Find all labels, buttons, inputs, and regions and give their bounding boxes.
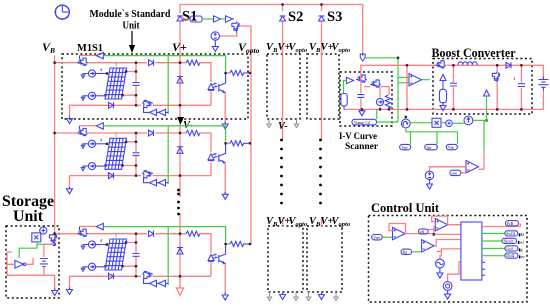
wire vsrc ground bbox=[214, 40, 216, 45]
mosfet S1 bbox=[232, 22, 239, 33]
svg-text:▮sw: ▮sw bbox=[519, 255, 526, 259]
gray ground under box2 left bbox=[267, 119, 271, 128]
svg-text:s-s: s-s bbox=[192, 17, 197, 22]
svg-text:Kp: Kp bbox=[403, 251, 408, 255]
capsule out1 bbox=[506, 221, 519, 226]
ellipsis column S2 bbox=[280, 139, 283, 205]
wire out row4 green bbox=[482, 248, 505, 250]
svg-text:Boost Converter: Boost Converter bbox=[432, 46, 516, 60]
svg-text:SwCtl: SwCtl bbox=[506, 232, 515, 236]
wire ctl3 out bbox=[434, 240, 461, 246]
wire ctl1 long out bbox=[428, 227, 461, 235]
capsule out4 bbox=[505, 246, 518, 251]
module unit box S2 bbox=[267, 54, 300, 119]
wire red divider bbox=[406, 65, 408, 109]
wire out row5 green bbox=[482, 255, 505, 257]
mosfet scanner1 bbox=[356, 75, 367, 82]
input capsule Vref bbox=[372, 235, 383, 240]
svg-text:Control Unit: Control Unit bbox=[371, 201, 440, 215]
S1 pulse block bbox=[190, 16, 202, 22]
capsule out3 bbox=[502, 238, 517, 243]
junction green bbox=[397, 57, 399, 59]
gate arrow boost1 bbox=[440, 75, 446, 81]
opamp ctl3 bbox=[422, 240, 435, 252]
V+ bus end arrow bbox=[177, 285, 184, 296]
block pin marks bbox=[482, 262, 485, 275]
svg-text:saw: saw bbox=[452, 172, 458, 176]
module unit box S3 lower bbox=[307, 226, 342, 292]
wire ctl misc bbox=[437, 249, 461, 259]
integrator circle bbox=[464, 116, 473, 125]
svg-text:S3: S3 bbox=[327, 9, 342, 25]
svg-text:PcB: PcB bbox=[507, 222, 514, 226]
ground arrow storage bbox=[52, 289, 58, 296]
sine source ctl1 bbox=[436, 259, 445, 268]
ground ctl1 bbox=[439, 268, 441, 272]
wire mult out bbox=[441, 122, 445, 124]
buffer S1a bbox=[214, 16, 221, 22]
svg-text:S2: S2 bbox=[288, 9, 303, 25]
capacitor scanner bbox=[357, 95, 364, 98]
module unit box S2 lower bbox=[268, 226, 303, 292]
capsule sense blocks bbox=[400, 144, 411, 149]
opamp ctl2 bbox=[435, 219, 448, 231]
wire S3 lower stub bbox=[321, 218, 323, 228]
junction dots rails bbox=[406, 64, 408, 66]
clock icon bbox=[54, 5, 69, 20]
svg-text:uA: uA bbox=[420, 230, 425, 234]
wire S1 block input bbox=[181, 18, 190, 20]
opamp follower bbox=[409, 74, 422, 86]
diode S1 bbox=[177, 16, 183, 21]
svg-text:▮M: ▮M bbox=[519, 233, 525, 237]
wire green in1 bbox=[382, 236, 392, 238]
wire green gate down bbox=[484, 96, 487, 151]
svg-text:Vdc: Vdc bbox=[448, 146, 454, 150]
mosfet scanner2 bbox=[370, 80, 381, 87]
svg-text:I-V Curve: I-V Curve bbox=[339, 131, 377, 141]
svg-text:Dctl2: Dctl2 bbox=[506, 254, 514, 258]
svg-text:Sketch: Sketch bbox=[504, 240, 514, 244]
resistor scanner bbox=[385, 95, 390, 109]
multiplier storage bbox=[32, 233, 41, 242]
cycle source bbox=[401, 119, 410, 128]
cell row 3 bbox=[53, 223, 251, 300]
sine source ctl2 bbox=[443, 282, 452, 291]
node arrow V- collector bbox=[360, 53, 365, 61]
junction blob bbox=[52, 243, 56, 247]
gain circle bbox=[446, 120, 453, 127]
blue ground lower S3 bbox=[319, 293, 325, 300]
wire feedback ctl2 bbox=[432, 216, 461, 225]
capsule uA741 bbox=[419, 229, 429, 234]
wire mosfet1 drop bbox=[360, 75, 362, 110]
wire S1 mosfet to source bbox=[220, 33, 237, 37]
current source scanner bbox=[376, 98, 383, 105]
multiplier bbox=[432, 118, 441, 127]
ground pwm bbox=[429, 180, 431, 183]
opamp ctl1 bbox=[393, 227, 406, 239]
cell row 1 M1S1 bbox=[53, 52, 251, 129]
battery load bbox=[542, 65, 544, 109]
wire out row1 red bbox=[482, 224, 520, 227]
mosfet boost2 bbox=[492, 72, 499, 83]
wire V+ bus top bbox=[179, 5, 181, 198]
wire S2 drop bbox=[282, 5, 284, 141]
svg-text:▮g: ▮g bbox=[519, 248, 523, 252]
storage unit box bbox=[6, 226, 59, 298]
gray ground lower S3 right bbox=[334, 292, 338, 301]
wire red main rail bbox=[360, 65, 543, 74]
ellipsis column S3 bbox=[319, 139, 322, 205]
wire out row2 green bbox=[482, 233, 505, 235]
wire green scanner bbox=[344, 81, 347, 94]
ground ctl2 bbox=[447, 290, 449, 293]
battery storage bbox=[40, 259, 48, 267]
wire storage red loop bbox=[7, 252, 44, 275]
gate arrow boost2 bbox=[484, 90, 490, 96]
junction dot ctl bbox=[433, 233, 435, 235]
label V- under box1 bbox=[177, 117, 184, 125]
svg-text:Vpv: Vpv bbox=[402, 146, 408, 150]
wire storage out down bbox=[44, 275, 55, 289]
wire S1 mosfet gate bbox=[233, 18, 235, 20]
I-V curve scanner box bbox=[340, 72, 392, 126]
svg-text:▮sel: ▮sel bbox=[518, 241, 524, 245]
junction dots storage bbox=[53, 232, 55, 234]
capacitor boost in bbox=[452, 65, 454, 109]
wire opamp output bbox=[422, 79, 431, 81]
wire gain to integ bbox=[452, 122, 464, 124]
ellipsis left column bbox=[177, 189, 180, 216]
wire out row3 green bbox=[482, 240, 502, 242]
svg-text:Vref: Vref bbox=[373, 236, 380, 240]
wire green in3 bbox=[412, 251, 422, 253]
wire green capsule bbox=[377, 109, 398, 122]
driver block boost1 bbox=[440, 89, 447, 103]
voltage source S1 bbox=[211, 32, 219, 40]
wire red bottom rail bbox=[344, 108, 543, 110]
voltage source pwm bbox=[425, 171, 433, 179]
capsule out2 bbox=[505, 231, 518, 236]
svg-text:Ipv: Ipv bbox=[427, 146, 432, 150]
wire top rail bbox=[180, 5, 363, 57]
wire integ to gate line bbox=[473, 119, 487, 121]
capsule Ipv ref bbox=[401, 249, 412, 254]
svg-text:.: . bbox=[457, 222, 458, 226]
wire storage battery top bbox=[44, 243, 54, 257]
svg-text:V-: V- bbox=[278, 121, 288, 132]
opamp pwm bbox=[466, 161, 479, 173]
svg-text:Unit: Unit bbox=[13, 208, 44, 225]
wire S3 drop bbox=[321, 5, 323, 141]
diode S2 bbox=[280, 16, 286, 21]
ground arrow S1 bbox=[212, 45, 218, 52]
control unit box bbox=[369, 216, 528, 303]
vertical label block Vscan bbox=[341, 94, 347, 107]
buffer scanner gate bbox=[347, 77, 354, 83]
annotation arrow bbox=[131, 31, 133, 46]
gray ground under box2 right bbox=[294, 119, 298, 128]
carrier capsule bbox=[450, 170, 461, 175]
wire green node to opamp bbox=[366, 58, 399, 122]
ground boost1 block bbox=[442, 103, 444, 105]
wire feedback ctl1 bbox=[389, 224, 434, 234]
wire csrc stubs bbox=[379, 87, 381, 110]
diode S3 bbox=[319, 16, 325, 21]
svg-text:Gctl: Gctl bbox=[506, 247, 512, 251]
wire green to multiplier bbox=[406, 117, 458, 145]
gray ground lower S2 left bbox=[267, 292, 271, 301]
capsule out5 bbox=[505, 253, 518, 258]
svg-text:Module`s Standard: Module`s Standard bbox=[90, 8, 171, 20]
svg-text:Unit: Unit bbox=[123, 20, 140, 32]
junction dots on top rail bbox=[281, 3, 283, 5]
module unit box S3 bbox=[307, 54, 339, 119]
C-script block bbox=[461, 222, 482, 280]
svg-text:V+: V+ bbox=[172, 40, 187, 54]
wire S2 lower stub bbox=[282, 218, 284, 228]
wire V_B bus bbox=[54, 56, 56, 239]
svg-text:Scanner: Scanner bbox=[345, 141, 378, 151]
buffer S1b bbox=[226, 16, 233, 22]
wire V+ bus lower bbox=[179, 213, 181, 288]
gray ground lower S2 right bbox=[294, 292, 298, 301]
inductor L1 bbox=[458, 62, 477, 65]
wire pwm inputs bbox=[430, 167, 467, 171]
wire storage green bbox=[19, 242, 52, 258]
cell row 2 bbox=[53, 123, 251, 200]
capacitor boost out bbox=[520, 65, 522, 109]
mosfet storage bbox=[49, 233, 56, 244]
svg-text:M1S1: M1S1 bbox=[77, 43, 103, 54]
wire red gate drive bbox=[479, 151, 485, 170]
boost converter box bbox=[433, 59, 532, 115]
mosfet boost1 bbox=[435, 61, 446, 68]
wire block to rail bbox=[343, 106, 345, 109]
wire storage bus junction bbox=[55, 233, 66, 235]
wire opamp inputs bbox=[398, 78, 409, 83]
module standard unit box M1S1 bbox=[62, 54, 248, 119]
source circle storage bbox=[40, 227, 47, 234]
wire green S1a bbox=[202, 18, 214, 20]
blue ground lower S2 bbox=[280, 293, 286, 300]
junction dots boost bbox=[452, 64, 454, 66]
wire gate block bbox=[442, 81, 444, 90]
wire V_opto bus bbox=[237, 26, 251, 244]
wire ctl2 source bbox=[448, 262, 461, 282]
diode boost bbox=[506, 62, 511, 68]
opamp storage bbox=[15, 260, 23, 268]
svg-text:1: 1 bbox=[513, 76, 515, 81]
svg-text:Vramp_Ctl: Vramp_Ctl bbox=[354, 121, 370, 125]
gray ground lower S3 left bbox=[306, 292, 310, 301]
wire boost2 drain source bbox=[496, 65, 498, 109]
wire green S1b bbox=[221, 18, 226, 20]
scan control capsule bbox=[352, 119, 377, 125]
ground arrow scanner bbox=[359, 109, 365, 116]
wire mosfet2 branch bbox=[364, 87, 389, 110]
